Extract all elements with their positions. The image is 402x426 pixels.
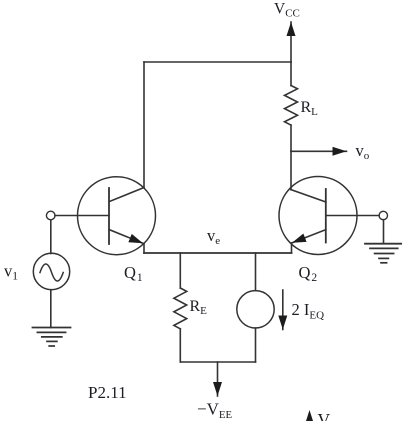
wire: Q2 emitter drop [291, 243, 293, 253]
terminal: Q2 base input [379, 211, 387, 219]
terminal: Q1 base input [46, 211, 55, 220]
svg-text:vo: vo [356, 141, 370, 162]
ground (right, Q2 base) [365, 244, 402, 263]
wire: bottom rail [180, 361, 255, 363]
wire: output node to Q2 collector [290, 151, 292, 189]
current source 2 IEQ [237, 291, 274, 328]
wire: RE to bottom rail [179, 329, 181, 362]
wire: current source to bottom rail [255, 328, 257, 362]
transistor Q2 [279, 177, 357, 255]
svg-text:RE: RE [190, 298, 208, 317]
svg-text:P2.11: P2.11 [88, 383, 127, 402]
wire: Q1 collector riser [143, 62, 145, 187]
wire: terminal to right ground [383, 220, 385, 244]
svg-text:Q1: Q1 [124, 263, 143, 284]
svg-text:−VEE: −VEE [197, 400, 232, 422]
wire: Q2 base [326, 215, 379, 217]
svg-text:RL: RL [301, 99, 319, 118]
wire: top rail [144, 61, 291, 63]
wire: RL to output node [290, 125, 292, 151]
wire: source to left ground [50, 290, 52, 328]
wire: VCC rail to RL [290, 62, 292, 86]
source v1 sine generator [33, 253, 69, 289]
wire: ve node to RE [179, 253, 181, 288]
current direction arrow [282, 290, 284, 330]
transistor Q1 [78, 177, 156, 255]
wire: terminal to source v1 [50, 220, 52, 254]
ground (left, v1) [33, 328, 71, 347]
resistor RE [174, 288, 187, 329]
svg-text:2 IEQ: 2 IEQ [292, 300, 325, 321]
wire: Q1 base [55, 215, 109, 217]
svg-text:v1: v1 [4, 262, 18, 283]
wire: ve node to current source [255, 253, 257, 291]
wire: Q1 emitter drop [143, 244, 145, 254]
resistor RL [285, 86, 298, 126]
next-figure arrow (clipped at page bottom) [306, 410, 313, 421]
svg-text:V: V [318, 410, 331, 421]
output arrow vo [291, 150, 347, 152]
power supply VCC arrow [290, 22, 292, 62]
svg-text:ve: ve [207, 226, 220, 247]
svg-text:Q2: Q2 [299, 263, 318, 284]
wire: emitter bus node ve [144, 252, 292, 254]
svg-text:VCC: VCC [274, 1, 300, 20]
power supply -VEE arrow [217, 362, 219, 396]
